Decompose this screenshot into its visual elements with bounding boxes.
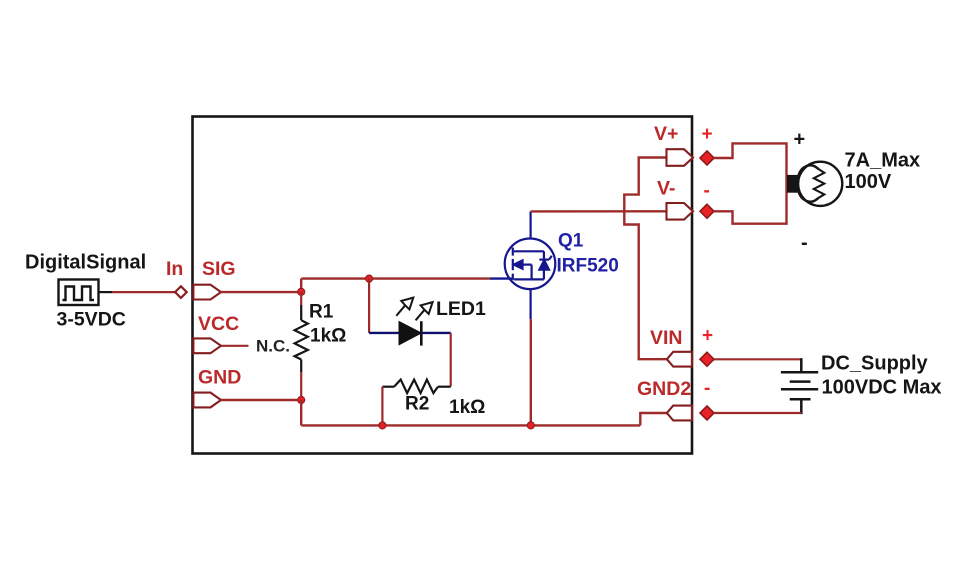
svg-text:+: +	[794, 129, 806, 151]
wire drain to V- port	[531, 210, 667, 212]
wire V+ to VIN (with jog)	[624, 158, 667, 360]
svg-text:V+: V+	[654, 123, 678, 145]
svg-text:+: +	[702, 326, 713, 347]
wire gate rail	[301, 277, 490, 279]
wire LED branch drop	[368, 279, 370, 333]
junction source / rail	[527, 422, 534, 429]
junction node B (gate rail / LED branch)	[366, 275, 373, 282]
port GND2	[667, 406, 692, 421]
wire GND2 to ground rail	[640, 413, 667, 425]
svg-text:1kΩ: 1kΩ	[449, 397, 485, 418]
LED1 emission arrow 1	[396, 298, 413, 316]
svg-text:-: -	[704, 181, 710, 202]
svg-text:In: In	[166, 258, 183, 280]
wire source to In node	[112, 291, 175, 293]
svg-text:VIN: VIN	[650, 327, 683, 349]
terminal diamond V+	[700, 151, 714, 165]
svg-text:7A_Max: 7A_Max	[845, 150, 921, 172]
module boundary box	[193, 117, 693, 454]
port VIN	[667, 352, 692, 367]
wire node A up to gate rail	[300, 279, 302, 293]
wire node A to R1 top lead	[300, 292, 302, 305]
svg-text:IRF520: IRF520	[557, 256, 619, 277]
LED1 emission arrow 2	[416, 302, 433, 320]
svg-text:R2: R2	[405, 394, 429, 415]
svg-text:SIG: SIG	[202, 258, 236, 280]
svg-text:100V: 100V	[845, 171, 892, 193]
resistor R2	[382, 380, 450, 394]
port GND	[193, 393, 221, 408]
svg-text:1kΩ: 1kΩ	[310, 326, 346, 347]
svg-text:-: -	[801, 232, 808, 254]
square-wave source V1	[59, 280, 99, 306]
port VCC	[193, 338, 221, 353]
wire GND to node C	[221, 399, 301, 401]
svg-text:V-: V-	[657, 178, 675, 200]
port V+	[667, 149, 694, 166]
junction R2 / rail	[379, 422, 386, 429]
junction node C (GND / R1 / rail)	[298, 396, 305, 403]
battery B1	[781, 358, 818, 414]
svg-text:GND: GND	[198, 367, 241, 389]
terminal diamond V-	[700, 204, 714, 218]
svg-text:GND2: GND2	[637, 378, 691, 400]
svg-text:VCC: VCC	[198, 313, 239, 335]
terminal diamond GND2	[700, 406, 714, 420]
transistor Q1 (IRF520 N-MOSFET)	[505, 211, 556, 319]
wire node C down to ground rail	[300, 400, 302, 425]
svg-text:DigitalSignal: DigitalSignal	[25, 252, 146, 274]
terminal diamond VIN	[700, 352, 714, 366]
svg-text:100VDC Max: 100VDC Max	[822, 377, 942, 399]
wire source lead to rail	[530, 319, 532, 425]
svg-text:LED1: LED1	[436, 298, 486, 320]
wire R2 left to ground rail	[381, 387, 383, 426]
wire gate lead (navy)	[490, 277, 513, 279]
junction node A (SIG / R1)	[298, 288, 305, 295]
lamp socket	[787, 175, 798, 193]
svg-text:3-5VDC: 3-5VDC	[57, 309, 126, 331]
lamp DS1 (bulb)	[798, 162, 842, 206]
wire LED cathode to R2	[450, 333, 452, 387]
port SIG	[193, 285, 221, 300]
node In (open diamond)	[175, 286, 187, 298]
wire source stub (black)	[99, 291, 113, 293]
svg-text:-: -	[704, 378, 710, 399]
wire VIN diamond to battery	[714, 358, 801, 360]
svg-text:DC_Supply: DC_Supply	[821, 353, 929, 375]
svg-text:N.C.: N.C.	[256, 337, 290, 356]
svg-text:R1: R1	[309, 302, 334, 323]
wire ground rail	[301, 424, 640, 426]
svg-text:+: +	[702, 124, 713, 145]
wire SIG to node A	[221, 291, 301, 293]
resistor R1	[295, 305, 308, 372]
svg-text:Q1: Q1	[558, 231, 584, 252]
wire lamp loop (V+ / V- diamonds to lamp)	[714, 143, 787, 223]
wire R1 bottom to node C	[300, 372, 302, 400]
wire battery to GND2 diamond	[714, 412, 801, 414]
port V-	[667, 203, 694, 220]
LED1	[369, 321, 451, 345]
wire VCC stub to N.C.	[221, 345, 249, 347]
